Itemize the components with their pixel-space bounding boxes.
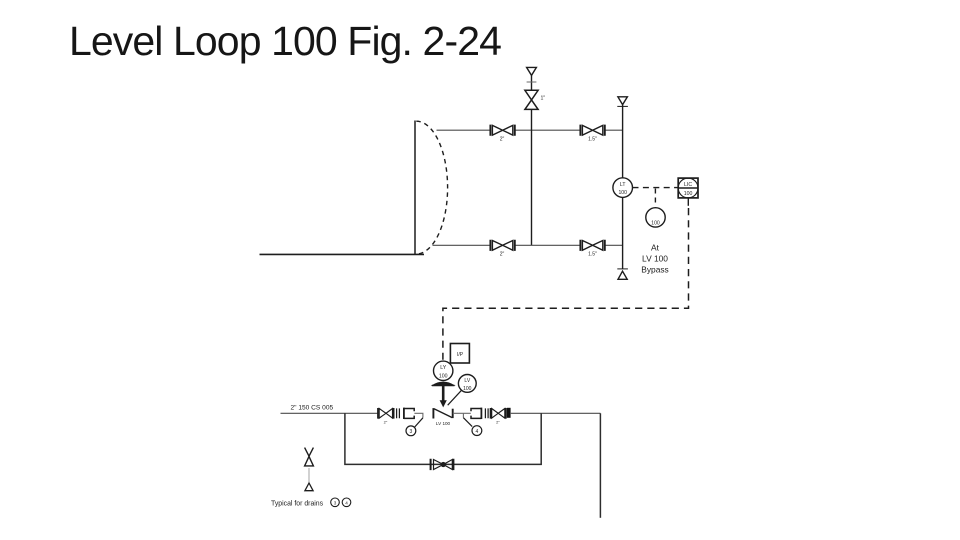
svg-text:3: 3 [410, 429, 413, 435]
flange pair left [397, 408, 400, 418]
svg-text:LV 100: LV 100 [436, 421, 451, 426]
wire vent stub [531, 75, 533, 90]
valve gate 2in upper-left [490, 125, 514, 143]
spec break solid [507, 408, 511, 418]
note At LV 100 Bypass [641, 243, 668, 275]
instrument LY 100 [434, 361, 453, 380]
svg-text:3: 3 [334, 500, 337, 505]
svg-text:Bypass: Bypass [641, 265, 668, 275]
svg-text:2": 2" [496, 420, 500, 425]
svg-text:100: 100 [684, 191, 693, 197]
drain tag 4 note [342, 498, 351, 507]
leader to drain 4 [463, 418, 472, 427]
drain funnel bottom [618, 271, 627, 279]
vessel V-1 shell line [414, 121, 416, 255]
control valve LV 100 body [433, 408, 452, 418]
svg-text:At: At [651, 243, 660, 253]
valve gate main right [491, 408, 506, 419]
valve stem arrow [442, 385, 445, 401]
flange pair right [485, 408, 488, 418]
leader to drain 3 [415, 418, 423, 427]
svg-text:LV: LV [464, 378, 470, 384]
vessel V-1 bottom edge [260, 253, 425, 255]
valve drain typical vertical [305, 448, 314, 466]
drain tag 4 [472, 426, 482, 436]
valve gate 2in lower-left [490, 240, 514, 258]
wire lower tap pipe [433, 244, 623, 246]
instrument LI 100 [646, 208, 665, 227]
valve vent 1in vertical [525, 90, 538, 109]
svg-text:1.5": 1.5" [588, 251, 597, 257]
signal LT to LIC dashed [633, 187, 678, 189]
instrument LT 100 [613, 178, 633, 198]
svg-text:2": 2" [500, 251, 505, 257]
pipe cap tick [617, 105, 628, 107]
wire bypass loop [345, 413, 541, 464]
wire LT standpipe upper [622, 105, 624, 178]
tag balloon LV 100 [448, 375, 476, 406]
spool breakout left [404, 408, 414, 419]
vent funnel top-right [618, 97, 628, 105]
wire drain stub [308, 468, 310, 482]
actuator diaphragm of LV 100 [433, 382, 454, 385]
valve gate 1.5in lower-right [580, 240, 604, 258]
svg-text:LIC: LIC [684, 182, 692, 188]
svg-text:2": 2" [384, 420, 388, 425]
wire LT standpipe lower [622, 197, 624, 268]
drain funnel typical [305, 483, 313, 491]
pipe cap tick [527, 81, 537, 83]
wire main process line right [511, 412, 601, 414]
svg-text:LV 100: LV 100 [642, 254, 668, 264]
svg-text:LT: LT [620, 182, 626, 188]
svg-text:2": 2" [500, 136, 505, 142]
svg-text:4: 4 [345, 500, 348, 505]
pipe cap tick bottom [617, 268, 628, 270]
drain tag 3 note [331, 498, 340, 507]
svg-text:100: 100 [651, 221, 660, 227]
wire stub to drain 4 [453, 412, 471, 414]
svg-text:LY: LY [440, 365, 446, 371]
controller LIC 100 shared display [678, 178, 698, 198]
svg-text:100: 100 [618, 190, 627, 196]
svg-text:2" 150 CS 005: 2" 150 CS 005 [291, 405, 334, 412]
valve globe bypass [431, 459, 454, 470]
wire main process line left [281, 412, 378, 414]
vent funnel top-center [527, 67, 537, 75]
drain tag 3 [406, 426, 416, 436]
svg-text:1.5": 1.5" [588, 136, 597, 142]
svg-text:1": 1" [541, 96, 546, 102]
signal LIC to LY dashed run [687, 198, 689, 206]
converter I/P square [450, 344, 469, 364]
wire upper tap pipe [437, 129, 623, 131]
svg-text:I/P: I/P [457, 352, 464, 358]
spool breakout right [471, 408, 481, 419]
valve gate main left [378, 408, 394, 419]
svg-text:100: 100 [463, 386, 472, 392]
wire stub to drain 3 [414, 413, 423, 418]
title text [69, 18, 501, 65]
wire riser down right [599, 413, 601, 518]
vessel V-1 dashed dished head [416, 121, 447, 254]
svg-text:4: 4 [476, 429, 479, 435]
svg-text:100: 100 [439, 374, 448, 380]
valve gate 1.5in upper-right [580, 125, 604, 143]
signal stub to LI [654, 189, 656, 207]
wire center standpipe [531, 109, 533, 245]
svg-text:Typical for drains: Typical for drains [271, 501, 324, 508]
